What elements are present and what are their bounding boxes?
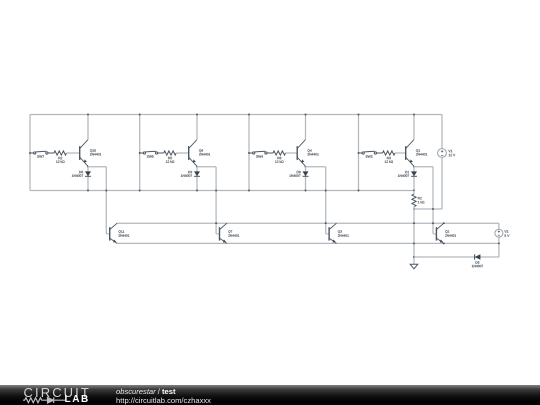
wire V2 top lead	[498, 223, 500, 229]
wire V1 bottom lead	[441, 157, 443, 209]
resistor R3 12 k&#937;	[383, 151, 396, 155]
transistor Q4 2N4401	[297, 140, 305, 167]
node emitter rail / ground column	[413, 242, 415, 244]
node stage4 switch tap	[358, 152, 360, 154]
node top rail / collector stage4	[413, 114, 415, 116]
wire emitter jumper	[306, 166, 326, 168]
resistor R5 12 k&#937;	[164, 151, 177, 155]
node bottom rail / diode	[87, 190, 89, 192]
node 209 / feed vertical	[432, 208, 434, 210]
transistor Q2 2N4401	[433, 233, 436, 235]
wire collector vertical	[413, 115, 415, 140]
wire collector vertical	[87, 115, 89, 140]
node stage3 switch tap	[248, 152, 250, 154]
node 209 / R2 bottom	[413, 208, 415, 210]
wire node 209	[414, 208, 442, 210]
transistor Q10 2N4401	[80, 140, 88, 167]
wire emitter jumper	[88, 166, 106, 168]
node top rail / collector	[196, 114, 198, 116]
node collector rail / Q2 base	[432, 222, 434, 224]
node Q2 emitter	[443, 242, 445, 244]
switch SW7	[30, 151, 54, 154]
resistor R6 12 k&#937;	[273, 151, 286, 155]
node top rail / stage3 left	[248, 114, 250, 116]
wire stage4 left vertical	[358, 115, 360, 191]
wire base lead	[395, 152, 406, 154]
transistor Q7 2N4401	[216, 233, 219, 235]
node bottom rail / diode	[305, 190, 307, 192]
diode D9 1N4007	[196, 167, 198, 191]
transistor Q6 2N4401	[189, 140, 197, 167]
node bottom rail / stage2 left	[139, 190, 141, 192]
node bottom rail crossing	[215, 190, 217, 192]
diode D6 1N4007	[87, 167, 89, 191]
diode D1 1N4007	[413, 167, 415, 191]
node bottom rail / diode	[413, 190, 415, 192]
wire V2 bottom lead	[498, 237, 500, 257]
switch SW5	[140, 151, 164, 154]
wire base feed vertical 1	[105, 167, 107, 234]
node stage2 switch tap	[139, 152, 141, 154]
switch SW4	[249, 151, 273, 154]
wire stage4 feed vertical	[432, 167, 434, 234]
diode D8 1N4007	[305, 167, 307, 191]
wire emitter jumper	[197, 166, 216, 168]
wire stage3 left vertical	[248, 115, 250, 191]
wire base lead	[176, 152, 189, 154]
node Q2 collector	[443, 222, 445, 224]
node collector rail / base feed	[325, 222, 327, 224]
node top rail / collector	[305, 114, 307, 116]
wire base lead	[67, 152, 80, 154]
resistor R2 12 k&#937;	[54, 151, 67, 155]
node top rail / stage2 left	[139, 114, 141, 116]
wire collector vertical	[196, 115, 198, 140]
transistor Q1 2N4401	[406, 140, 414, 167]
node bottom rail crossing	[325, 190, 327, 192]
transistor Q3 2N4401	[326, 233, 329, 235]
wire collector rail	[117, 222, 499, 224]
wire emitter jumper	[414, 166, 433, 168]
wire stage1 left vertical	[29, 115, 31, 191]
ground	[410, 264, 418, 269]
node return wire / ground column	[413, 256, 415, 258]
wire V1 top lead	[441, 115, 443, 149]
node bottom rail crossing	[105, 190, 107, 192]
wire return	[414, 256, 499, 258]
wire base feed vertical 3	[325, 167, 327, 234]
switch SW3	[359, 151, 383, 154]
node stage2 emitter junction	[196, 166, 198, 168]
node stage1 switch tap	[29, 152, 31, 154]
node stage3 emitter junction	[305, 166, 307, 168]
wire emitter rail	[117, 242, 499, 244]
node emitter rail / V2	[498, 242, 500, 244]
wire ground column	[413, 209, 415, 264]
wire R2 top lead	[413, 191, 415, 195]
wire top rail	[30, 114, 442, 116]
wire base feed vertical 2	[215, 167, 217, 234]
node bottom rail / diode	[196, 190, 198, 192]
node bottom rail / stage3 left	[248, 190, 250, 192]
transistor Q11 2N4401	[106, 233, 109, 235]
logo resistor-diode glyph	[23, 396, 67, 404]
node stage4 emitter junction	[413, 166, 415, 168]
wire stage2 left vertical	[139, 115, 141, 191]
wire base lead	[286, 152, 298, 154]
node stage1 emitter junction	[87, 166, 89, 168]
wire bottom rail	[30, 190, 414, 192]
node collector rail / base feed	[215, 222, 217, 224]
diode D5 1N4007	[475, 254, 481, 259]
node top rail / collector	[87, 114, 89, 116]
wire collector vertical	[305, 115, 307, 140]
node top rail / stage4 left	[358, 114, 360, 116]
node bottom rail / stage4 left	[358, 190, 360, 192]
node collector rail / ground column	[413, 222, 415, 224]
